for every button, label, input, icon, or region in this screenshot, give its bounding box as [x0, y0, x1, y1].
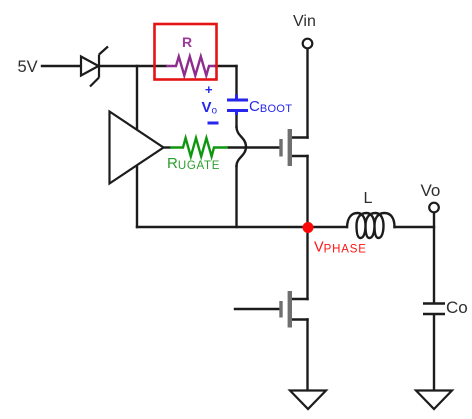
svg-text:R: R [182, 34, 192, 50]
svg-text:Vo: Vo [421, 181, 441, 200]
svg-text:Co: Co [446, 298, 468, 317]
svg-text:+: + [205, 82, 213, 97]
svg-text:5V: 5V [18, 58, 38, 76]
svg-text:L: L [364, 190, 373, 207]
svg-text:Vin: Vin [293, 13, 316, 30]
